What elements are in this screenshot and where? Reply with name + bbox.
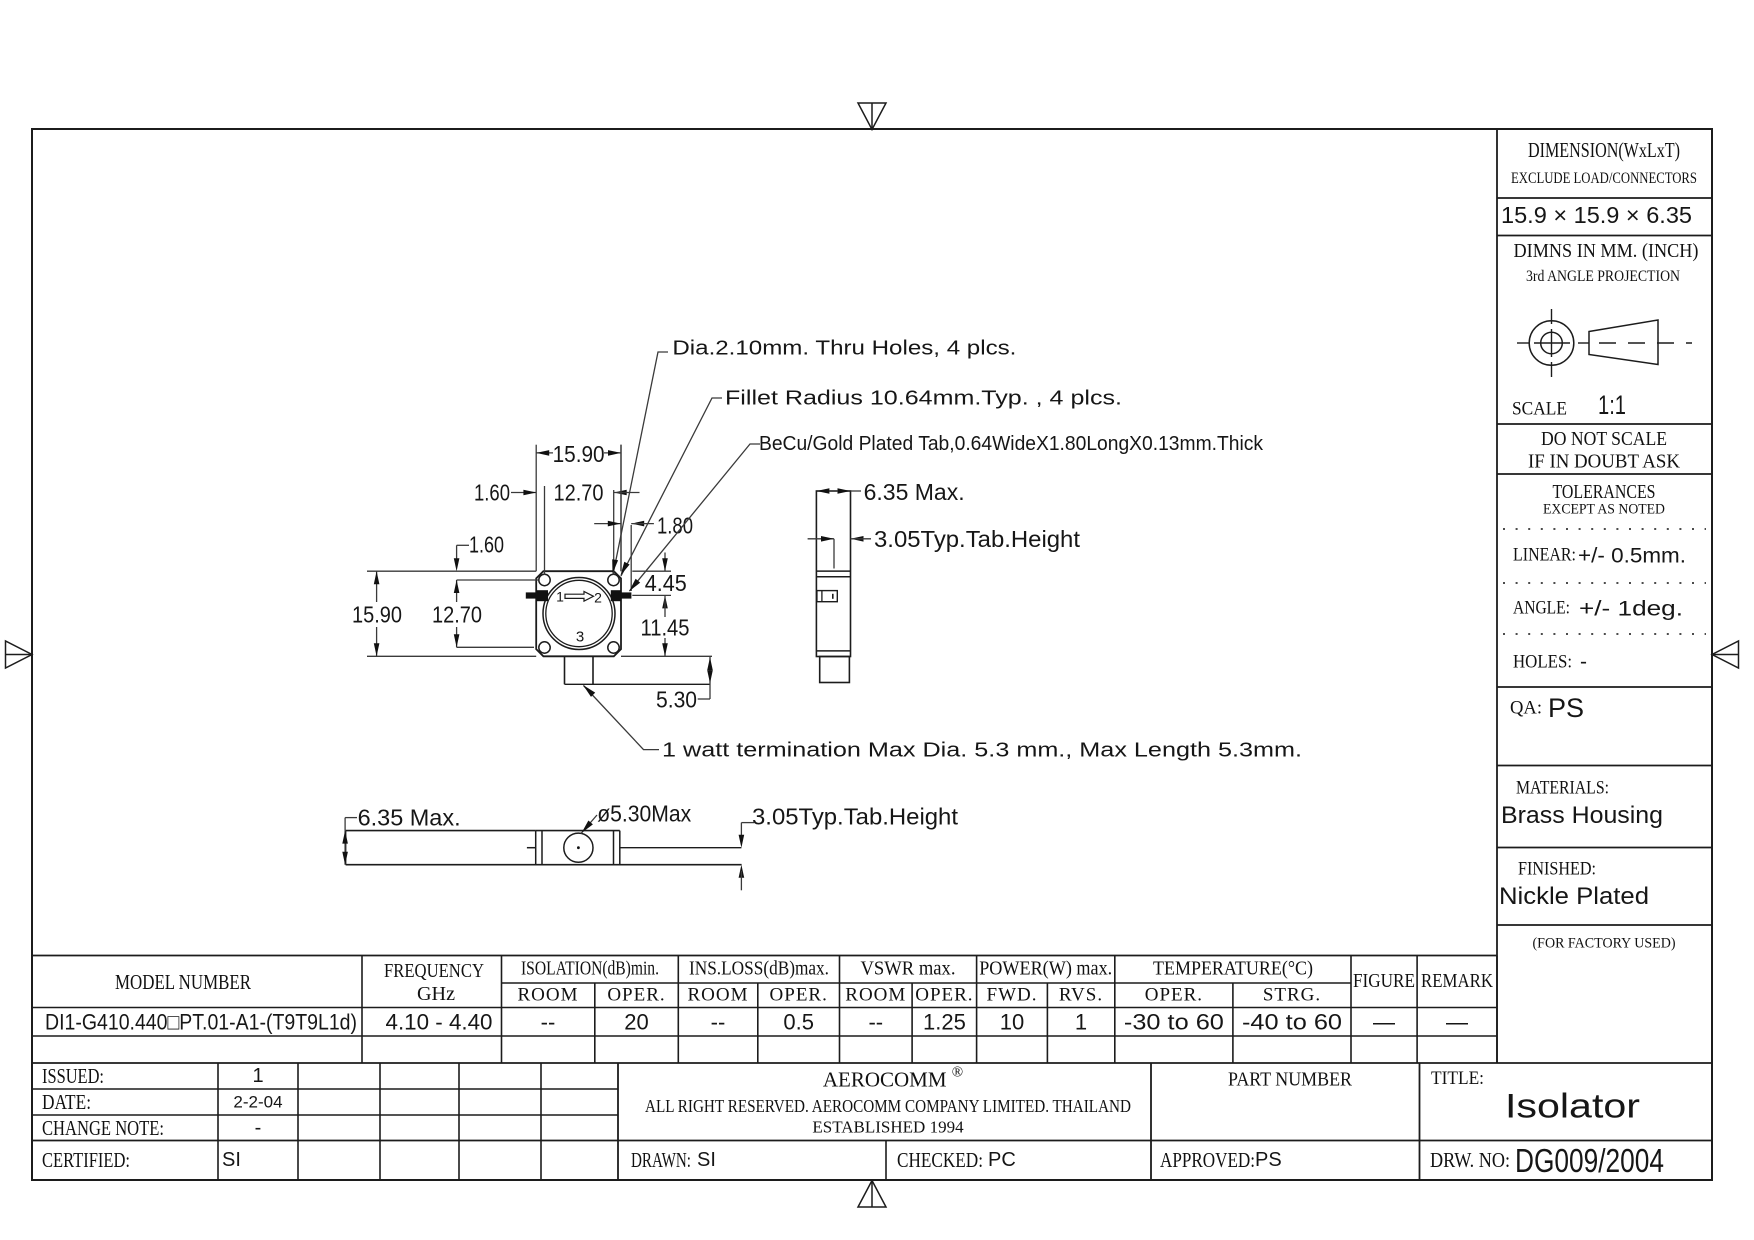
issue table grid	[32, 1063, 1712, 1180]
svg-text:--: --	[541, 1010, 556, 1035]
svg-text:ø5.30Max: ø5.30Max	[597, 801, 691, 827]
registration mark right	[1712, 641, 1739, 668]
spec table data row	[45, 1010, 1468, 1035]
svg-text:QA:: QA:	[1510, 698, 1542, 719]
bottom view connector barrel	[346, 831, 742, 865]
svg-text:FREQUENCY: FREQUENCY	[384, 960, 484, 982]
svg-text:0.5: 0.5	[783, 1010, 814, 1035]
svg-text:APPROVED:: APPROVED:	[1160, 1148, 1255, 1172]
right column box lines	[1497, 129, 1712, 1063]
title cell	[1431, 1068, 1640, 1126]
svg-text:3.05Typ.Tab.Height: 3.05Typ.Tab.Height	[874, 526, 1081, 552]
svg-text:FINISHED:: FINISHED:	[1518, 859, 1596, 880]
svg-text:ROOM: ROOM	[517, 985, 578, 1006]
bottom view body section	[536, 831, 620, 865]
side view tab detail	[817, 591, 837, 602]
svg-text:AEROCOMM ®: AEROCOMM ®	[823, 1065, 963, 1092]
svg-text:IF IN DOUBT ASK: IF IN DOUBT ASK	[1528, 451, 1681, 473]
svg-text:6.35 Max.: 6.35 Max.	[864, 479, 965, 505]
svg-text:ISSUED:: ISSUED:	[42, 1064, 104, 1088]
svg-text:MATERIALS:: MATERIALS:	[1516, 778, 1609, 799]
svg-text:DIMNS IN MM. (INCH): DIMNS IN MM. (INCH)	[1514, 240, 1699, 262]
svg-text:OPER.: OPER.	[915, 985, 973, 1006]
svg-text:-30 to 60: -30 to 60	[1124, 1010, 1224, 1035]
registration mark left	[6, 641, 33, 668]
svg-text:—: —	[1373, 1010, 1395, 1035]
svg-text:4.10 - 4.40: 4.10 - 4.40	[386, 1010, 493, 1035]
svg-text:SCALE: SCALE	[1512, 399, 1567, 420]
svg-text:EXCEPT AS NOTED: EXCEPT AS NOTED	[1543, 502, 1665, 518]
signature row	[631, 1142, 1664, 1179]
svg-text:PC: PC	[988, 1149, 1016, 1171]
svg-text:DI1-G410.440□PT.01-A1-(T9T9L1d: DI1-G410.440□PT.01-A1-(T9T9L1d)	[45, 1010, 357, 1035]
plan view body outline	[536, 571, 621, 656]
svg-text:15.9 × 15.9 × 6.35: 15.9 × 15.9 × 6.35	[1501, 202, 1692, 228]
svg-text:-40 to 60: -40 to 60	[1242, 1010, 1342, 1035]
right column: scale	[1512, 390, 1626, 420]
plan view cover circle	[543, 578, 615, 650]
svg-text:INS.LOSS(dB)max.: INS.LOSS(dB)max.	[689, 958, 829, 980]
bottom view dimension dia 5.30	[581, 801, 692, 834]
svg-text:Isolator: Isolator	[1505, 1088, 1640, 1126]
svg-text:FIGURE: FIGURE	[1353, 970, 1415, 992]
spec table headers	[115, 958, 1493, 1006]
part number cell	[1228, 1069, 1353, 1091]
svg-text:12.70: 12.70	[432, 602, 482, 628]
svg-text:TITLE:: TITLE:	[1431, 1068, 1484, 1089]
registration mark bottom	[858, 1181, 886, 1208]
svg-text:1: 1	[252, 1065, 263, 1087]
svg-text:TEMPERATURE(°C): TEMPERATURE(°C)	[1153, 958, 1313, 980]
dimension 1.80 tab	[594, 445, 693, 591]
plan view port labels 1 2 3 and flow arrow	[556, 589, 602, 646]
svg-text:6.35 Max.: 6.35 Max.	[358, 805, 461, 831]
dimension 4.45	[632, 553, 687, 610]
dimension 12.70 left	[432, 580, 539, 647]
svg-text:TOLERANCES: TOLERANCES	[1553, 481, 1656, 503]
svg-text:FWD.: FWD.	[987, 985, 1038, 1006]
svg-text:3: 3	[576, 629, 584, 646]
svg-text:PS: PS	[1255, 1149, 1282, 1171]
note leader: thru holes	[612, 338, 1016, 575]
svg-text:LINEAR:: LINEAR:	[1513, 545, 1576, 566]
svg-text:ROOM: ROOM	[845, 985, 906, 1006]
right column: tolerances	[1503, 481, 1706, 674]
svg-text:ISOLATION(dB)min.: ISOLATION(dB)min.	[521, 958, 659, 980]
right column: materials	[1501, 778, 1663, 830]
svg-text:HOLES:: HOLES:	[1513, 652, 1572, 673]
svg-text:DRW. NO:: DRW. NO:	[1430, 1148, 1510, 1172]
svg-text:4.45: 4.45	[645, 570, 687, 596]
3rd angle projection symbol	[1517, 309, 1692, 377]
svg-text:2-2-04: 2-2-04	[233, 1093, 282, 1112]
company cell	[645, 1065, 1131, 1137]
spec table grid	[32, 956, 1712, 1064]
side view termination	[820, 657, 850, 683]
svg-text:GHz: GHz	[417, 983, 455, 1005]
svg-text:5.30: 5.30	[656, 686, 697, 712]
svg-text:Nickle Plated: Nickle Plated	[1499, 883, 1649, 910]
svg-text:3.05Typ.Tab.Height: 3.05Typ.Tab.Height	[752, 803, 959, 829]
note leader: termination	[583, 685, 1302, 762]
svg-text:DIMENSION(WxLxT): DIMENSION(WxLxT)	[1528, 138, 1680, 162]
svg-text:12.70: 12.70	[554, 480, 604, 506]
svg-text:Brass Housing: Brass Housing	[1501, 802, 1663, 829]
side view dimension 6.35	[816, 479, 964, 505]
svg-text:1:1: 1:1	[1598, 390, 1626, 420]
svg-text:-: -	[255, 1117, 262, 1139]
svg-text:10: 10	[1000, 1010, 1024, 1035]
right column: DIMENSION header	[1511, 138, 1697, 187]
bottom view termination hole	[564, 833, 593, 862]
svg-text:+/- 0.5mm.: +/- 0.5mm.	[1578, 545, 1686, 568]
right column: QA	[1510, 693, 1584, 723]
svg-text:CERTIFIED:: CERTIFIED:	[42, 1148, 130, 1172]
dimension 11.45	[621, 609, 712, 656]
plan view mounting holes	[539, 574, 619, 653]
svg-text:3rd ANGLE PROJECTION: 3rd ANGLE PROJECTION	[1526, 268, 1680, 285]
dimension 15.90 top	[536, 441, 621, 571]
svg-text:15.90: 15.90	[553, 441, 605, 467]
svg-text:DG009/2004: DG009/2004	[1515, 1142, 1664, 1179]
note leader: fillet radius	[621, 387, 1123, 576]
svg-text:EXCLUDE LOAD/CONNECTORS: EXCLUDE LOAD/CONNECTORS	[1511, 170, 1697, 187]
svg-text:ROOM: ROOM	[687, 985, 748, 1006]
svg-text:CHECKED:: CHECKED:	[897, 1148, 983, 1172]
svg-text:DO NOT SCALE: DO NOT SCALE	[1541, 428, 1667, 450]
bottom view dimension 3.05 tab height	[739, 803, 959, 890]
side view dimension 3.05 tab height	[808, 526, 1081, 569]
svg-text:CHANGE NOTE:: CHANGE NOTE:	[42, 1116, 164, 1140]
plan view right tab (BeCu)	[611, 590, 632, 601]
svg-text:ANGLE:: ANGLE:	[1513, 598, 1570, 619]
right column: do not scale	[1528, 428, 1681, 473]
svg-text:20: 20	[624, 1010, 648, 1035]
dimension 1.60 / 12.70 top	[474, 480, 640, 576]
right column: overall size value	[1501, 202, 1692, 228]
right column: for factory used	[1533, 936, 1676, 952]
right column: DIMNS IN MM	[1514, 240, 1699, 285]
svg-text:1: 1	[556, 589, 564, 605]
dimension 15.90 left	[352, 571, 536, 656]
svg-text:STRG.: STRG.	[1263, 985, 1321, 1006]
right column: finished	[1499, 859, 1649, 911]
side view outline	[816, 491, 850, 657]
svg-text:SI: SI	[697, 1149, 716, 1171]
svg-text:+/- 1deg.: +/- 1deg.	[1579, 598, 1683, 621]
svg-text:ALL RIGHT RESERVED. AEROCO: ALL RIGHT RESERVED. AEROCOMM COMPANY LIM…	[645, 1096, 1131, 1116]
svg-text:VSWR max.: VSWR max.	[861, 958, 956, 980]
svg-text:ESTABLISHED 1994: ESTABLISHED 1994	[812, 1118, 964, 1137]
bottom view dimension 6.35	[342, 805, 460, 865]
svg-text:2: 2	[594, 590, 602, 606]
dimension 1.60 left upper	[454, 532, 504, 572]
svg-text:Dia.2.10mm. Thru Holes, 4: Dia.2.10mm. Thru Holes, 4 plcs.	[672, 338, 1016, 360]
svg-text:SI: SI	[222, 1149, 241, 1171]
svg-text:15.90: 15.90	[352, 602, 402, 628]
plan view left tab (BeCu)	[526, 590, 548, 601]
svg-text:DATE:: DATE:	[42, 1090, 91, 1114]
issue table labels	[42, 1064, 283, 1172]
svg-text:Fillet Radius 10.64mm.Typ.: Fillet Radius 10.64mm.Typ. , 4 plcs.	[725, 387, 1122, 409]
svg-text:--: --	[868, 1010, 883, 1035]
registration mark top	[858, 103, 886, 130]
svg-text:OPER.: OPER.	[770, 985, 828, 1006]
svg-text:PART NUMBER: PART NUMBER	[1228, 1069, 1353, 1091]
svg-text:OPER.: OPER.	[1145, 985, 1203, 1006]
svg-text:DRAWN:: DRAWN:	[631, 1148, 691, 1172]
svg-text:1.80: 1.80	[657, 512, 693, 538]
svg-text:1.25: 1.25	[923, 1010, 966, 1035]
svg-text:PS: PS	[1548, 693, 1584, 723]
svg-text:MODEL NUMBER: MODEL NUMBER	[115, 970, 251, 994]
svg-text:11.45: 11.45	[641, 615, 690, 641]
svg-text:-: -	[1580, 651, 1587, 674]
dimension 5.30	[656, 656, 713, 712]
bottom view tab stubs	[527, 847, 742, 849]
note leader: BeCu tab	[629, 433, 1264, 592]
svg-text:—: —	[1446, 1010, 1468, 1035]
svg-text:POWER(W) max.: POWER(W) max.	[979, 958, 1112, 980]
svg-text:1 watt termination Max Dia: 1 watt termination Max Dia. 5.3 mm., Max…	[662, 740, 1302, 762]
svg-text:RVS.: RVS.	[1059, 985, 1103, 1006]
svg-text:1.60: 1.60	[474, 480, 510, 506]
svg-text:BeCu/Gold Plated Tab,0.64Wid: BeCu/Gold Plated Tab,0.64WideX1.80LongX0…	[759, 433, 1264, 455]
svg-text:--: --	[711, 1010, 726, 1035]
svg-text:1.60: 1.60	[469, 532, 504, 558]
svg-text:(FOR FACTORY USED): (FOR FACTORY USED)	[1533, 936, 1676, 952]
svg-text:1: 1	[1075, 1010, 1087, 1035]
svg-text:OPER.: OPER.	[607, 985, 665, 1006]
svg-text:REMARK: REMARK	[1421, 970, 1493, 992]
plan view termination stub	[565, 656, 711, 684]
